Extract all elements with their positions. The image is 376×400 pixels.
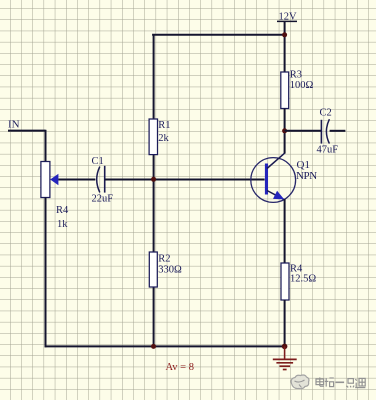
wire R3 to collector [284, 109, 286, 154]
wire C2 output [330, 130, 346, 132]
svg-text:1k: 1k [57, 219, 68, 230]
svg-text:100Ω: 100Ω [290, 80, 314, 91]
wire emitter down [284, 199, 286, 264]
wire input vertical [45, 130, 47, 162]
svg-text:22uF: 22uF [92, 193, 114, 204]
svg-text:R3: R3 [290, 70, 302, 81]
12V underline [277, 20, 297, 22]
ground symbol [273, 346, 297, 369]
svg-text:R2: R2 [158, 254, 170, 265]
wire top rail [152, 34, 285, 36]
svg-text:R1: R1 [158, 120, 170, 131]
wire IN horizontal [8, 130, 46, 132]
junction bias bottom [151, 344, 156, 349]
capacitor C1 curved plate [97, 167, 100, 193]
wire R4 to ground node [284, 300, 286, 346]
svg-text:C1: C1 [92, 156, 104, 167]
capacitor C2 curved plate [326, 119, 329, 143]
resistor R2 body [149, 252, 157, 287]
transistor Q1 [251, 153, 296, 202]
svg-text:NPN: NPN [296, 170, 317, 182]
svg-text:R4: R4 [56, 205, 69, 216]
svg-text:Av = 8: Av = 8 [166, 362, 194, 373]
potentiometer R4 wiper arrow [50, 174, 58, 186]
watermark logo [291, 375, 309, 389]
wire C1 to base junction [105, 179, 154, 181]
wire wiper to C1 [58, 179, 95, 181]
wire bottom rail [45, 345, 285, 347]
svg-text:47uF: 47uF [317, 145, 339, 156]
potentiometer R4 body [41, 162, 50, 198]
svg-text:2k: 2k [158, 133, 169, 144]
wire pot bottom vertical [45, 198, 47, 348]
junction base node [151, 177, 156, 182]
wire collector node to C2 [285, 130, 322, 132]
resistor R4 body (emitter) [281, 263, 289, 300]
svg-text:12.5Ω: 12.5Ω [290, 274, 316, 285]
watermark text (stylized) [316, 377, 365, 387]
svg-text:IN: IN [8, 119, 20, 131]
svg-text:330Ω: 330Ω [158, 265, 182, 276]
wire 12V stem [284, 21, 286, 72]
junction top rail [282, 32, 287, 37]
junction collector node [282, 128, 287, 133]
resistor R1 body [149, 119, 157, 155]
wire bias vertical [153, 35, 155, 347]
capacitor C2 straight plate [320, 120, 322, 144]
svg-text:C2: C2 [320, 108, 332, 119]
junction ground node [282, 344, 288, 350]
capacitor C1 straight plate [104, 166, 106, 193]
resistor R3 body [281, 72, 289, 109]
wire base junction to transistor base [153, 179, 265, 181]
